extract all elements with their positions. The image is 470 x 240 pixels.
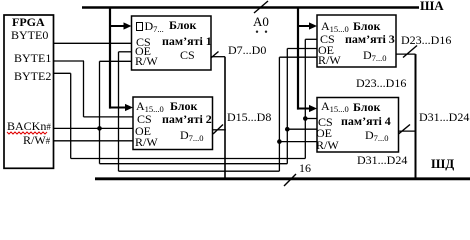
block3 pin R/W bbox=[318, 54, 341, 66]
wire: BYTE1 to block2 CS bbox=[84, 116, 134, 118]
bus-width slash block3 data bbox=[403, 46, 417, 58]
block4 title line1 bbox=[353, 101, 380, 113]
block2 pin R/W bbox=[135, 136, 158, 148]
FPGA label bbox=[12, 16, 45, 28]
wire: OE chain horizontal bbox=[100, 163, 288, 165]
wire: block4 R/W stub bbox=[279, 141, 317, 143]
block4 data out D7...0 bbox=[365, 129, 389, 141]
wire: block3 OE stub bbox=[287, 48, 317, 50]
block3 pin OE bbox=[318, 44, 334, 56]
wire: block1 data out bbox=[211, 56, 225, 58]
pin BACKn# bbox=[7, 120, 51, 132]
pin BYTE0 bbox=[11, 29, 48, 41]
block1 interior CS bbox=[180, 49, 195, 61]
block3 pin A15...0 bbox=[321, 20, 349, 32]
block2 data out D7...0 bbox=[180, 129, 204, 141]
block1 pin D7 with box glyph bbox=[136, 20, 164, 32]
block2 pin OE bbox=[135, 125, 151, 137]
bus-width slash block4 data bbox=[396, 125, 411, 137]
wire: block3 R/W stub bbox=[279, 56, 317, 58]
wire: BYTE2 vertical bbox=[70, 73, 72, 158]
wire: arrow into block1 A pin bbox=[110, 25, 126, 27]
wire: block2 data out bbox=[213, 129, 226, 131]
wire: BACKn# to block2 OE bbox=[54, 127, 134, 129]
wire: block1 OE stub bbox=[119, 51, 132, 53]
block3 title line2 bbox=[345, 33, 395, 45]
bus-width slash block2 data bbox=[213, 125, 223, 135]
wire: arrow into block3 A pin bbox=[298, 25, 311, 27]
net label ШД bbox=[431, 157, 454, 170]
wire: arrow into block4 A pin bbox=[298, 108, 311, 110]
wire: block1 R/W stub bbox=[100, 60, 132, 62]
wire: CS chain vertical up to block3 bbox=[304, 39, 306, 158]
node: CS junction to block4 bbox=[303, 116, 308, 121]
address bus ША bbox=[82, 6, 419, 9]
net label ША bbox=[420, 0, 444, 12]
wire: R/W chain horizontal bbox=[119, 170, 280, 172]
block1 pin OE bbox=[135, 45, 151, 57]
memory block 2 box bbox=[133, 97, 213, 150]
block4 pin A15...0 bbox=[321, 100, 349, 112]
net label A0 bbox=[253, 15, 269, 28]
pin R/W# bbox=[23, 134, 50, 146]
net label D23...D16 lower bbox=[356, 77, 406, 89]
wire: block3 data out bbox=[396, 53, 416, 55]
wire: arrow into block2 A pin bbox=[110, 107, 127, 109]
block1 title line1 bbox=[169, 19, 196, 31]
dots under A0 bbox=[256, 31, 258, 33]
wire: block4 CS stub bbox=[305, 118, 317, 120]
node: BACKn junction bbox=[97, 126, 102, 131]
block2 title line1 bbox=[170, 100, 197, 112]
bus-width slash on ША near A0 bbox=[254, 1, 268, 13]
pin BYTE2 bbox=[14, 70, 51, 82]
wire: OE chain vertical up to block3 bbox=[286, 49, 288, 164]
memory block 3 box bbox=[317, 15, 396, 67]
spellcheck squiggle under BACKn# bbox=[7, 132, 47, 134]
block2 pin CS bbox=[137, 113, 152, 125]
bus width label 16 bbox=[299, 162, 311, 174]
block4 pin CS bbox=[318, 116, 333, 128]
block2 pin A15...0 bbox=[136, 100, 164, 112]
wire: data vertical left D15..D8 bbox=[224, 57, 226, 179]
block4 pin R/W bbox=[316, 139, 339, 151]
wire: BYTE1 out bbox=[54, 60, 85, 62]
block3 data out D7...0 bbox=[363, 49, 387, 61]
block2 title line2 bbox=[162, 113, 212, 125]
wire: vertical V1 bbox=[99, 61, 101, 163]
wire: block4 OE stub bbox=[287, 128, 317, 130]
bus-width slash block1 data bbox=[209, 52, 219, 61]
wire: R/W chain vertical up to block3 bbox=[278, 57, 280, 171]
wire: address drop left bbox=[109, 7, 111, 109]
net label D23...D16 upper bbox=[401, 34, 451, 46]
wire: address drop right bbox=[297, 7, 299, 110]
wire: CS chain horizontal bbox=[71, 158, 306, 160]
wire: BYTE2 out bbox=[54, 72, 71, 74]
block1 pin CS bbox=[136, 36, 151, 48]
block3 pin CS bbox=[320, 33, 335, 45]
wire: block3 CS stub bbox=[305, 38, 317, 40]
bus-width slash on ШД "16" bbox=[284, 174, 296, 186]
block1 title line2 bbox=[162, 35, 212, 47]
block3 title line1 bbox=[353, 20, 380, 32]
node: R/W junction to block4 bbox=[277, 139, 282, 144]
wire: BYTE0 to block1 CS bbox=[54, 42, 132, 44]
pin BYTE1 bbox=[14, 52, 51, 64]
net label D31...D24 lower bbox=[357, 154, 407, 166]
memory block 1 box bbox=[132, 16, 212, 70]
block1 pin R/W bbox=[135, 55, 158, 67]
wire: block4 data out bbox=[399, 130, 416, 132]
wire: BYTE1 vertical bbox=[83, 61, 85, 117]
wire: data vertical right D31..D24 bbox=[415, 54, 417, 179]
node: OE junction to block4 bbox=[285, 127, 290, 132]
net label D7...D0 bbox=[228, 44, 266, 56]
data bus ШД bbox=[95, 177, 470, 180]
wire: R/W# to block2 R/W bbox=[54, 140, 134, 142]
memory block 4 box bbox=[317, 98, 399, 153]
block4 pin OE bbox=[316, 127, 332, 139]
net label D31...D24 upper bbox=[419, 111, 469, 123]
net label D15...D8 bbox=[227, 111, 271, 123]
block4 title line2 bbox=[341, 115, 391, 127]
wire: vertical V2 bbox=[118, 52, 120, 171]
FPGA box bbox=[4, 15, 54, 168]
